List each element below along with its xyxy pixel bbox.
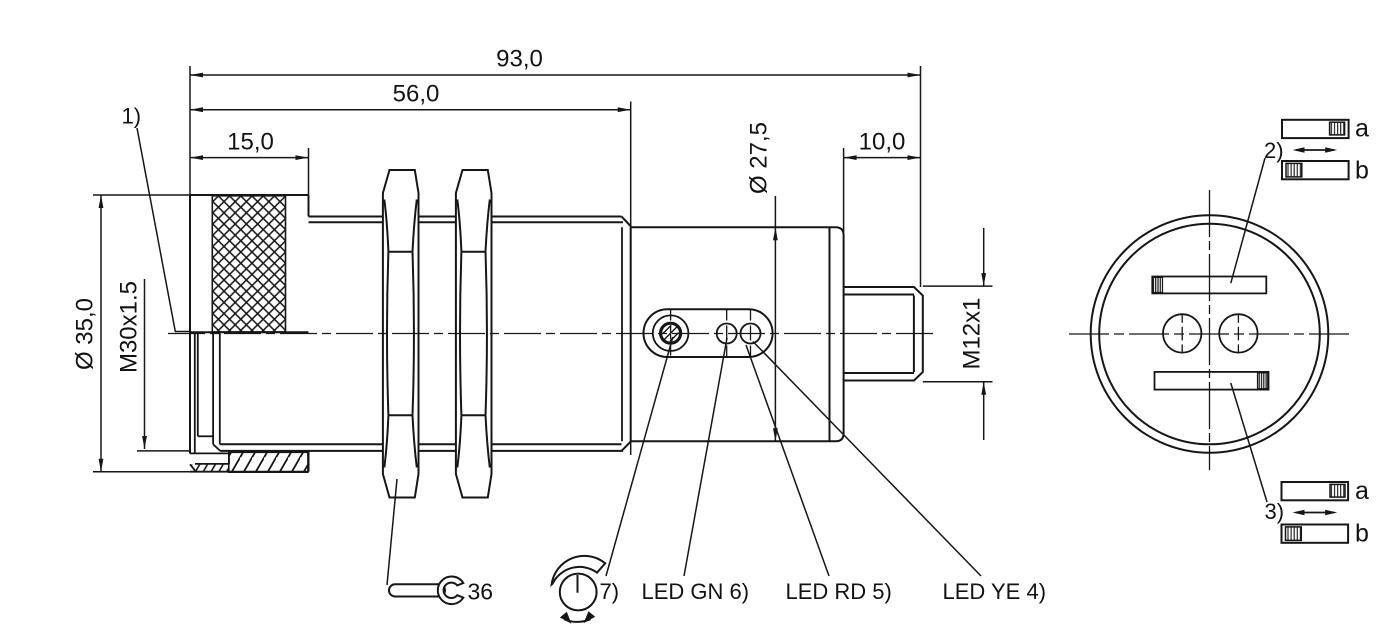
- hex nut 1: [383, 170, 419, 498]
- switch symbol a (top): [1282, 115, 1369, 143]
- potentiometer symbol 7): [552, 556, 606, 624]
- svg-text:LED GN 6): LED GN 6): [642, 579, 750, 604]
- dimension 93,0: [190, 46, 921, 78]
- dimension 10,0: [844, 129, 921, 233]
- LED GN hole: [717, 310, 737, 356]
- LED RD hole: [741, 310, 761, 356]
- arrow both ways (top): [1293, 147, 1338, 153]
- svg-text:a: a: [1355, 477, 1369, 505]
- svg-text:LED RD 5): LED RD 5): [786, 579, 892, 604]
- svg-text:2): 2): [1264, 138, 1284, 163]
- svg-text:a: a: [1355, 115, 1369, 143]
- svg-text:3): 3): [1265, 499, 1285, 524]
- thread end face: [621, 227, 623, 441]
- wrench symbol SW36: [389, 576, 463, 604]
- lower teach slot: [1155, 372, 1269, 390]
- dimension 56,0: [190, 81, 631, 456]
- pin hole right: [1219, 314, 1257, 354]
- M12 connector: [844, 287, 923, 381]
- section hatch: rim strip: [191, 465, 230, 472]
- svg-text:LED YE 4): LED YE 4): [943, 579, 1047, 604]
- svg-text:b: b: [1355, 157, 1369, 185]
- dimension 15,0: [190, 129, 309, 196]
- svg-text:36: 36: [468, 579, 494, 605]
- leader LED GN: [684, 338, 727, 576]
- potentiometer circles: [653, 310, 689, 357]
- centerline horizontal of end view: [1069, 333, 1353, 335]
- svg-text:93,0: 93,0: [496, 46, 543, 73]
- thread lines top: [309, 217, 632, 227]
- section: inner sleeve lines lower half: [195, 332, 220, 453]
- section: cap rim bottom: [190, 453, 309, 471]
- mounting plate (hatched): [229, 452, 308, 472]
- svg-text:b: b: [1355, 520, 1369, 548]
- wire: extension line left at x=190: [189, 66, 191, 195]
- svg-text:10,0: 10,0: [859, 129, 906, 156]
- thread lines bottom: [220, 441, 631, 451]
- LED / potentiometer pill: [644, 309, 773, 357]
- dimension M30x1.5: [116, 279, 192, 451]
- dimension M12x1: [923, 228, 993, 440]
- switch symbol b (bottom): [1282, 520, 1369, 548]
- knurled ring: [212, 196, 285, 332]
- svg-text:1): 1): [122, 104, 142, 129]
- svg-text:15,0: 15,0: [227, 129, 274, 156]
- svg-text:56,0: 56,0: [393, 81, 440, 108]
- end view: outer circles: [1091, 215, 1329, 453]
- leader to wrench from nut: [387, 479, 397, 585]
- centerline vertical of end view: [1209, 190, 1211, 470]
- svg-text:Ø 35,0: Ø 35,0: [72, 298, 99, 370]
- svg-text:M30x1.5: M30x1.5: [116, 281, 143, 373]
- main body: [631, 227, 844, 441]
- arrow both ways (bottom): [1293, 510, 1338, 516]
- switch symbol b (top): [1282, 157, 1369, 185]
- dimension diameter 35,0: [72, 195, 191, 472]
- upper teach slot: [1152, 277, 1266, 294]
- svg-text:7): 7): [600, 579, 620, 604]
- switch symbol a (bottom): [1282, 477, 1370, 505]
- hex nut 2: [456, 170, 492, 498]
- svg-text:Ø 27,5: Ø 27,5: [746, 122, 773, 194]
- leader LED RD: [746, 345, 829, 576]
- svg-text:M12x1: M12x1: [959, 297, 986, 369]
- label 1) with leader: [122, 104, 191, 332]
- pin hole left: [1163, 314, 1201, 354]
- label 3) with leader: [1231, 383, 1284, 524]
- centerline horizontal of side view: [168, 333, 938, 335]
- sensor head cap outline: [190, 195, 309, 472]
- leader LED YE: [753, 342, 981, 577]
- wire: extension line right at x=920.5: [920, 66, 922, 287]
- dimension diameter 27,5: [746, 122, 778, 441]
- leader 7): [606, 337, 673, 576]
- label 2) with leader: [1231, 138, 1284, 283]
